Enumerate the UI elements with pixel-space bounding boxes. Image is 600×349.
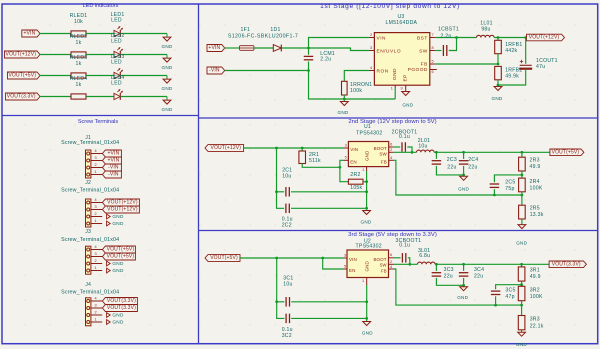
connector J2 pin 3: [91, 209, 102, 211]
global label VOUT(+12V) (LED row 2): [5, 51, 41, 58]
node 1RRON1 ground junction: [343, 98, 346, 101]
wire U1 GND to ground: [366, 171, 368, 210]
svg-text:1: 1: [362, 168, 364, 172]
node 2C3 junction: [435, 151, 438, 154]
wire BOOT pin to 3CBOOT1: [394, 257, 401, 259]
capacitor 1COUT1 polarized: [519, 60, 532, 69]
op-amp U1 TPS54302 body: [348, 142, 388, 167]
diode 1D1: [273, 45, 281, 52]
ground (1RFB2): [494, 87, 502, 91]
U1 pin 3 VIN: [344, 147, 349, 149]
node 3C1 junction: [275, 300, 278, 303]
svg-text:22.1k: 22.1k: [530, 323, 544, 329]
node stage3 FB divider junction: [520, 283, 523, 286]
section divider left horizontal: [2, 115, 199, 117]
svg-text:SW: SW: [380, 263, 387, 268]
wire LED2 to ground: [121, 54, 168, 56]
svg-text:2C2: 2C2: [282, 222, 292, 228]
svg-text:1: 1: [94, 317, 96, 321]
U3 pin 7 BST: [430, 37, 436, 39]
global label VOUT(+5V) (stage 3 input): [205, 255, 240, 262]
svg-text:2C5: 2C5: [505, 179, 515, 185]
node FB junction: [497, 63, 500, 66]
U1 pin 6 BOOT: [389, 146, 394, 148]
svg-text:VOUT(+5V): VOUT(+5V): [552, 150, 580, 156]
wire EN node to 2R2: [340, 167, 349, 181]
wire +VIN to fuse F1: [225, 47, 240, 49]
global label +VIN (LED row 1): [22, 30, 40, 37]
svg-text:49.9k: 49.9k: [505, 74, 519, 80]
node 3C5 bottom junction: [494, 304, 497, 307]
svg-text:LM5164DDA: LM5164DDA: [386, 20, 418, 26]
wire inductor to VOUT(3.3V): [435, 263, 549, 265]
wire 1COUT1 to divider ground: [498, 69, 526, 85]
svg-text:GND: GND: [402, 103, 413, 108]
wire 3R2 to lower node: [521, 301, 523, 316]
svg-text:PGOOD: PGOOD: [408, 67, 428, 73]
node EN junction: [339, 166, 342, 169]
capacitor 3C2: [286, 314, 289, 324]
node stage2 input cap junction: [275, 147, 278, 150]
connector J3 body: [86, 246, 91, 274]
connector J3 pin 4: [91, 249, 102, 251]
wire 2R3 to FB node: [521, 171, 523, 178]
wire FB node to 2C5 top: [494, 175, 522, 182]
capacitor 1CBST1: [443, 45, 446, 56]
svg-text:3: 3: [344, 253, 346, 257]
svg-text:10u: 10u: [418, 144, 427, 150]
node stage2 FB divider junction: [521, 174, 524, 177]
svg-text:1st Stage ([12-100V] step down: 1st Stage ([12-100V] step down to 12V): [320, 3, 460, 10]
global label VOUT(3.3V) (stage 3 output): [549, 261, 586, 268]
svg-text:Screw_Terminal_01x04: Screw_Terminal_01x04: [61, 140, 119, 146]
global label VOUT(+12V) (J2 pin 4): [102, 199, 139, 206]
wire SW pin to inductor 3L01: [394, 263, 418, 265]
svg-text:1D1: 1D1: [270, 27, 280, 33]
connector J2 pin 1: [91, 223, 102, 225]
svg-text:10u: 10u: [282, 174, 291, 180]
U2 pin 6 BOOT: [389, 257, 394, 259]
svg-text:6: 6: [431, 70, 433, 74]
connector J4 pin 1: [91, 321, 102, 323]
svg-text:TPS54302: TPS54302: [356, 130, 382, 136]
svg-text:49.9: 49.9: [530, 274, 541, 280]
resistor 3R2: [518, 286, 525, 300]
section divider vertical: [198, 4, 200, 344]
U2 pin 5 EN: [344, 268, 348, 270]
global label GND (J2 pin 1): [107, 221, 111, 226]
capacitor 3C3: [432, 273, 442, 276]
wire SW pin to inductor 2L01: [394, 151, 417, 153]
node 3C4 gnd junction: [462, 284, 465, 287]
wire LCM1 to -VIN node: [308, 61, 310, 70]
svg-text:442k: 442k: [505, 48, 517, 54]
svg-text:3: 3: [94, 303, 96, 307]
resistor 2R4: [519, 178, 526, 192]
op-amp U2 TPS54302 body: [347, 250, 389, 278]
connector J1 pin 4: [91, 153, 102, 155]
svg-text:GND: GND: [162, 65, 173, 70]
svg-text:3: 3: [94, 252, 96, 256]
capacitor 2C4: [459, 161, 469, 164]
capacitor 2CBOOT1: [402, 142, 405, 152]
svg-text:GND: GND: [112, 221, 124, 226]
node 3C3 junction: [435, 263, 438, 266]
wire to 2C1: [277, 191, 285, 193]
U3 pin 5 FB: [430, 63, 436, 65]
capacitor LCM1: [308, 48, 310, 55]
U1 pin 5 EN: [344, 159, 349, 161]
connector J2 pin 4: [91, 202, 102, 204]
wire RLED2 to LED2: [86, 54, 114, 56]
ground (LED row 4): [166, 97, 168, 101]
wire LED4 to ground: [121, 96, 168, 98]
ground (2R5): [518, 225, 526, 229]
svg-text:Screw_Terminal_01x04: Screw_Terminal_01x04: [61, 187, 119, 193]
svg-text:47u: 47u: [536, 64, 545, 70]
svg-text:2R5: 2R5: [530, 205, 540, 211]
wire LED1 to ground: [121, 33, 168, 35]
svg-text:100K: 100K: [530, 186, 543, 192]
svg-text:SW: SW: [379, 152, 387, 157]
svg-text:5: 5: [344, 264, 346, 268]
U3 pin 9 EP: [405, 85, 407, 91]
svg-text:GND: GND: [112, 214, 124, 219]
wire 2R5 to ground: [521, 219, 523, 225]
svg-text:GND: GND: [112, 320, 124, 325]
svg-text:GND: GND: [516, 342, 527, 347]
wire U2 GND to ground: [366, 285, 368, 322]
ground (2C3 2C4): [460, 176, 468, 180]
capacitor 2C5: [490, 184, 500, 187]
U3 pin 2 VIN: [369, 37, 375, 39]
capacitor 3C1: [286, 297, 289, 307]
svg-text:22u: 22u: [444, 273, 453, 279]
capacitor 3C4: [459, 273, 469, 276]
svg-text:+VIN: +VIN: [107, 158, 119, 164]
wire 1RFB1 to FB node: [497, 54, 499, 64]
resistor RLED4: [71, 94, 86, 99]
ground (U2): [363, 322, 371, 326]
global label +VIN (stage 1): [207, 45, 225, 52]
svg-text:3R3: 3R3: [530, 317, 540, 323]
wire U3 GND pin to rail: [394, 88, 396, 99]
svg-text:22u: 22u: [468, 164, 477, 170]
svg-text:4: 4: [94, 296, 96, 300]
svg-text:GND: GND: [516, 241, 527, 246]
svg-text:3C5: 3C5: [505, 287, 515, 293]
ground (1RRON1): [343, 99, 345, 102]
svg-text:U3: U3: [397, 14, 404, 20]
wire 3R3 to ground: [521, 330, 523, 332]
svg-text:EN/UVLO: EN/UVLO: [377, 49, 402, 55]
capacitor 2C3: [432, 161, 442, 164]
svg-text:VOUT(+12V): VOUT(+12V): [107, 207, 138, 213]
wire to 3C1: [277, 301, 285, 303]
connector J4 body: [86, 298, 91, 326]
connector J2 body: [86, 199, 91, 227]
svg-text:1F1: 1F1: [240, 27, 250, 33]
svg-text:+VIN: +VIN: [107, 151, 119, 157]
global label GND (J3 pin 2): [107, 261, 111, 266]
wire 3C5 bottom to FB return: [495, 296, 497, 305]
connector J4 pin 4: [91, 300, 102, 302]
svg-text:1k: 1k: [76, 40, 82, 46]
ground (LED row 3): [166, 76, 168, 80]
svg-text:4: 4: [94, 198, 96, 202]
node 3R3 junction: [520, 304, 523, 307]
svg-text:VOUT(+12V): VOUT(+12V): [5, 52, 36, 58]
ground (U3 EP): [402, 92, 410, 96]
wire 3C4 to gnd: [463, 278, 465, 285]
U2 pin 4 FB: [389, 268, 394, 270]
global label VOUT(3.3V) (LED row 4): [6, 93, 41, 100]
wire ground rail stage 1: [309, 71, 396, 100]
wire to 3C3: [435, 264, 437, 271]
svg-text:GND: GND: [392, 68, 398, 80]
svg-text:+VIN: +VIN: [208, 45, 220, 51]
capacitor 3CBOOT1: [402, 253, 405, 262]
svg-text:47p: 47p: [505, 294, 514, 300]
svg-text:1: 1: [391, 87, 393, 91]
svg-text:3R1: 3R1: [530, 267, 540, 273]
resistor 2R3: [519, 157, 526, 171]
svg-text:BOOT: BOOT: [374, 146, 387, 151]
global label VOUT(+12V) (stage 2 input): [205, 145, 244, 152]
svg-text:Screw Terminals: Screw Terminals: [78, 119, 118, 125]
U1 pin 2 SW: [389, 151, 394, 153]
global label VOUT(+5V) (J3 pin 3): [102, 253, 135, 260]
svg-text:4: 4: [94, 245, 96, 249]
global label -VIN (J1 pin 1): [102, 171, 121, 178]
svg-text:2C3: 2C3: [447, 157, 457, 163]
svg-text:GND: GND: [458, 186, 469, 191]
svg-text:EN: EN: [349, 268, 355, 273]
LED LED4: [114, 89, 123, 100]
resistor 1RFB1: [495, 40, 502, 53]
U3 pin 4 RON: [369, 70, 375, 72]
section divider right 2: [199, 230, 598, 232]
capacitor 2C1: [286, 187, 289, 197]
svg-text:4: 4: [390, 156, 392, 160]
svg-text:2: 2: [94, 163, 96, 167]
svg-text:3C3: 3C3: [444, 267, 454, 273]
node stage2 2R1 junction: [301, 147, 304, 150]
svg-text:J3: J3: [85, 229, 91, 235]
svg-text:GND: GND: [365, 150, 370, 161]
node output cap junction: [524, 36, 527, 39]
global label -VIN (stage 1): [207, 67, 225, 74]
resistor RLED1: [71, 31, 86, 36]
svg-text:EP: EP: [402, 74, 408, 81]
U3 pin 3 EN/UVLO: [369, 50, 375, 52]
svg-text:GND: GND: [365, 261, 370, 272]
capacitor 2C2: [286, 204, 289, 214]
wire BST pin to boot node: [435, 37, 456, 39]
svg-text:Screw_Terminal_01x04: Screw_Terminal_01x04: [61, 290, 119, 296]
svg-text:3C1: 3C1: [283, 276, 293, 282]
svg-text:VIN: VIN: [377, 36, 387, 42]
resistor 3R1: [518, 267, 525, 281]
svg-text:VOUT(+5V): VOUT(+5V): [210, 255, 238, 261]
resistor RLED3: [71, 73, 86, 78]
wire to 2C3: [435, 152, 437, 159]
wire stage2 input: [244, 147, 344, 149]
wire EN node to EN pin: [340, 160, 344, 167]
svg-text:2R2: 2R2: [350, 172, 360, 178]
U1 pin 4 FB: [389, 159, 394, 161]
svg-text:3: 3: [94, 156, 96, 160]
wire 1RFB2 to ground node: [497, 80, 499, 85]
svg-text:VOUT(3.3V): VOUT(3.3V): [107, 298, 136, 304]
wire VOUT(+5V) to RLED3: [40, 75, 71, 77]
wire input node to VIN pin: [309, 38, 369, 49]
U2 pin 3 VIN: [344, 257, 348, 259]
wire 1CBST1 to boot node: [449, 38, 457, 51]
svg-text:-VIN: -VIN: [209, 68, 220, 74]
wire 2CBOOT1 to SW node: [407, 147, 412, 152]
svg-text:LED: LED: [111, 60, 122, 66]
global label VOUT(+5V) (stage 2 output): [550, 149, 584, 156]
node 2R3 junction: [521, 151, 524, 154]
wire LED3 to ground: [121, 75, 168, 77]
capacitor 3C5: [491, 291, 501, 294]
node 2C2 gnd junction: [365, 207, 368, 210]
wire to 2C4: [463, 152, 465, 159]
svg-text:Screw_Terminal_01x04: Screw_Terminal_01x04: [61, 237, 119, 243]
svg-text:VOUT(+5V): VOUT(+5V): [8, 73, 36, 79]
wire 2R2 to gnd rail: [363, 181, 367, 183]
wire inductor to VOUT(+5V): [434, 151, 550, 153]
svg-text:VOUT(+5V): VOUT(+5V): [107, 247, 135, 253]
svg-text:3: 3: [370, 46, 372, 50]
svg-text:GND: GND: [112, 313, 124, 318]
svg-text:13.3k: 13.3k: [530, 212, 544, 218]
wire SW pin to 1CBST1: [435, 50, 441, 52]
connector J3 pin 1: [91, 270, 102, 272]
resistor 1RRON1: [342, 81, 348, 95]
ground (3R3): [518, 332, 526, 336]
ground (3C3 3C4): [460, 287, 468, 291]
svg-text:0.1u: 0.1u: [399, 134, 410, 140]
global label GND (J4 pin 2): [107, 313, 111, 318]
global label GND (J4 pin 1): [107, 320, 111, 325]
global label GND (J3 pin 1): [107, 268, 111, 273]
svg-text:3C2: 3C2: [282, 333, 292, 339]
connector J3 pin 2: [91, 263, 102, 265]
LED LED3: [114, 68, 123, 79]
svg-text:49.9: 49.9: [530, 164, 541, 170]
svg-text:-VIN: -VIN: [108, 165, 119, 171]
svg-text:8: 8: [431, 46, 433, 50]
svg-text:BST: BST: [417, 36, 428, 42]
svg-text:6: 6: [390, 253, 392, 257]
svg-text:LED: LED: [111, 18, 122, 24]
wire 2R1 from input: [301, 148, 303, 151]
connector J1 body: [86, 150, 91, 178]
U2 pin 2 SW: [389, 263, 394, 265]
wire output node to 1RFB1: [497, 38, 499, 41]
svg-text:GND: GND: [162, 107, 173, 112]
svg-text:4: 4: [94, 149, 96, 153]
wire stage3 input: [240, 257, 344, 259]
svg-text:FB: FB: [381, 269, 387, 274]
svg-text:VOUT(3.3V): VOUT(3.3V): [7, 94, 36, 100]
wire input cap rail stage 2: [277, 148, 285, 208]
wire input node to EN/UVLO pin: [309, 48, 369, 51]
svg-text:LED indicators: LED indicators: [83, 3, 119, 9]
svg-text:BOOT: BOOT: [373, 257, 386, 262]
wire 3C3 to gnd: [436, 278, 463, 285]
global label VOUT(3.3V) (J4 pin 3): [102, 305, 137, 312]
svg-text:+VIN: +VIN: [23, 31, 35, 37]
svg-text:3: 3: [345, 143, 347, 147]
svg-text:GND: GND: [112, 268, 124, 273]
svg-text:1: 1: [362, 279, 364, 283]
wire 3CBOOT1 to SW node: [408, 258, 410, 265]
svg-text:1: 1: [94, 266, 96, 270]
wire 1RRON1 to rail: [343, 95, 345, 99]
svg-text:2C4: 2C4: [468, 157, 478, 163]
resistor 2R1: [299, 151, 306, 164]
wire 3C1 to gnd rail: [291, 301, 367, 303]
svg-text:4: 4: [370, 66, 372, 70]
wire 2R3 top: [521, 152, 523, 157]
node stage3 EN junction: [321, 257, 324, 260]
wire output node to 1COUT1: [525, 38, 527, 64]
connector J1 pin 3: [91, 160, 102, 162]
svg-text:GND: GND: [362, 331, 373, 336]
svg-text:RON: RON: [377, 69, 389, 75]
wire 3C2 to gnd rail: [291, 317, 367, 319]
svg-text:3C4: 3C4: [474, 267, 484, 273]
wire VOUT(+12V) to RLED2: [40, 54, 71, 56]
svg-text:LED: LED: [111, 39, 122, 45]
node SW boot junction stage3: [408, 263, 411, 266]
node 3C1 gnd junction: [365, 300, 368, 303]
svg-text:2: 2: [370, 33, 372, 37]
LED LED2: [114, 47, 123, 58]
svg-text:2: 2: [390, 260, 392, 264]
svg-text:1: 1: [94, 170, 96, 174]
wire diode to input node: [282, 47, 309, 49]
svg-text:LED: LED: [111, 81, 122, 87]
svg-text:0.1u: 0.1u: [282, 327, 293, 333]
node stage3 input cap junction: [275, 257, 278, 260]
connector J4 pin 3: [91, 307, 102, 309]
node 2R5 junction: [521, 194, 524, 197]
node divider ground junction: [497, 84, 500, 87]
node 3R1 junction: [520, 263, 523, 266]
svg-text:75p: 75p: [505, 186, 514, 192]
wire RLED4 to LED4: [86, 96, 114, 98]
svg-text:VOUT(+5V): VOUT(+5V): [107, 254, 135, 260]
svg-text:3R2: 3R2: [530, 287, 540, 293]
wire 2R1 to EN node: [302, 164, 340, 168]
svg-text:GND: GND: [112, 261, 124, 266]
fuse 1F1: [240, 46, 255, 51]
svg-text:GND: GND: [162, 86, 173, 91]
inductor 3L01: [418, 262, 436, 264]
wire boot node to inductor 1L01: [457, 37, 477, 39]
node 2C4 junction: [462, 151, 465, 154]
svg-text:1L01: 1L01: [480, 20, 492, 26]
wire 2C4 to gnd: [463, 166, 465, 175]
svg-text:SW: SW: [419, 49, 428, 55]
global label VOUT(+5V) (LED row 3): [8, 72, 41, 79]
svg-text:GND: GND: [457, 295, 468, 300]
node feedback top junction: [497, 36, 500, 39]
